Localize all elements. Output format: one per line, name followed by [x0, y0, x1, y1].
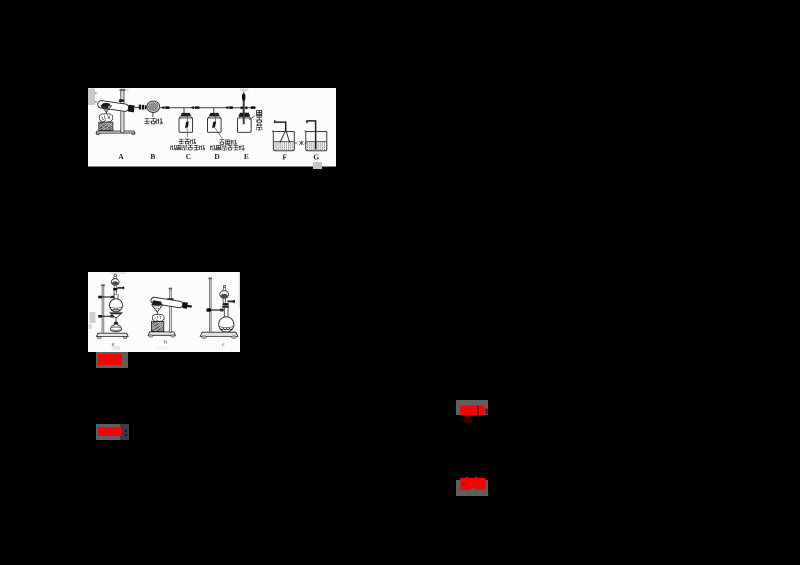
cotton wad b	[152, 314, 164, 322]
wood block	[99, 122, 113, 130]
stopper joints to B	[135, 106, 139, 108]
bottle E	[240, 112, 249, 114]
tube into G	[307, 120, 316, 148]
flow arrow 3	[225, 106, 228, 109]
clamp a2	[98, 315, 102, 318]
svg-text:E: E	[244, 151, 249, 160]
alcohol lamp a	[115, 320, 117, 322]
svg-text:B: B	[150, 151, 155, 160]
white scan background	[88, 272, 240, 352]
clamp a1	[98, 296, 102, 299]
svg-text:A: A	[118, 151, 124, 160]
flask a neck	[114, 294, 118, 299]
label 湿润的 under D	[219, 139, 224, 144]
dropping funnel c: bulb	[220, 291, 229, 299]
svg-text:C: C	[186, 151, 191, 160]
white scan background	[88, 88, 336, 167]
funnel under tube mouth	[102, 102, 110, 105]
clamp c	[207, 308, 210, 311]
main gas pipe	[160, 107, 257, 113]
stand a base	[96, 333, 128, 336]
scan smudge top-left	[88, 88, 95, 105]
stand c pole	[209, 278, 211, 332]
drying bulb B	[147, 101, 160, 112]
dish under flask a	[110, 313, 122, 318]
scan smudge top	[120, 88, 129, 90]
gray handle square below G	[313, 162, 322, 169]
bottle D	[210, 112, 219, 114]
highlight block 3	[456, 400, 488, 415]
test tube b	[150, 297, 192, 310]
label 干燥的 under C	[179, 139, 184, 144]
beaker F	[272, 130, 294, 150]
svg-text:D: D	[214, 151, 219, 160]
test tube A	[97, 100, 134, 112]
figure 2: three stand setups scan	[88, 272, 240, 352]
stand b pole	[170, 289, 172, 333]
dropping funnel c: top tip	[223, 285, 225, 287]
label 干燥剂	[144, 118, 150, 123]
svg-text:G: G	[313, 152, 319, 161]
litmus paper in D	[212, 121, 216, 128]
label 红色石蕊试纸 under C	[171, 145, 176, 150]
label 浓盐酸 (vertical)	[257, 110, 262, 115]
flask c neck	[224, 308, 228, 319]
flow arrow 1	[161, 106, 164, 109]
dropping funnel a: bulb	[111, 279, 119, 286]
flask c	[219, 317, 234, 332]
leader to acid label	[249, 115, 255, 119]
litmus paper in C	[185, 121, 189, 128]
clamp b	[167, 298, 173, 301]
scan smudges	[110, 272, 127, 274]
stand c base	[200, 332, 238, 336]
inverted funnel in F	[280, 131, 290, 142]
beaker G	[305, 130, 327, 150]
svg-text:F: F	[282, 152, 287, 161]
bottle C	[182, 112, 191, 114]
stand A pole	[121, 89, 124, 132]
figure 1: gas apparatus scan	[88, 88, 336, 167]
stopcock c	[223, 303, 229, 305]
clamp A	[119, 99, 125, 102]
funnel under tube b	[152, 303, 162, 306]
flow arrow 2	[191, 106, 194, 109]
stand b base	[148, 332, 175, 335]
flask a	[110, 299, 123, 312]
label 红色石蕊试纸 under D	[210, 145, 215, 150]
highlight block 4	[456, 480, 488, 496]
flow arrow 4	[251, 106, 255, 108]
dropper in E	[241, 106, 243, 109]
letter row A-G	[118, 151, 319, 161]
svg-text:b: b	[164, 340, 167, 346]
stand A base	[96, 131, 135, 133]
wood block b	[151, 322, 163, 332]
highlight block 1 (below figure 2)	[96, 352, 128, 368]
stand a pole	[102, 285, 104, 333]
highlight block 2	[96, 424, 120, 440]
label 水 with dashes	[295, 142, 298, 144]
dropping funnel a: top tip	[114, 274, 116, 276]
cotton wad	[99, 113, 113, 122]
tube into F	[275, 120, 286, 132]
stopcock a	[114, 286, 116, 288]
